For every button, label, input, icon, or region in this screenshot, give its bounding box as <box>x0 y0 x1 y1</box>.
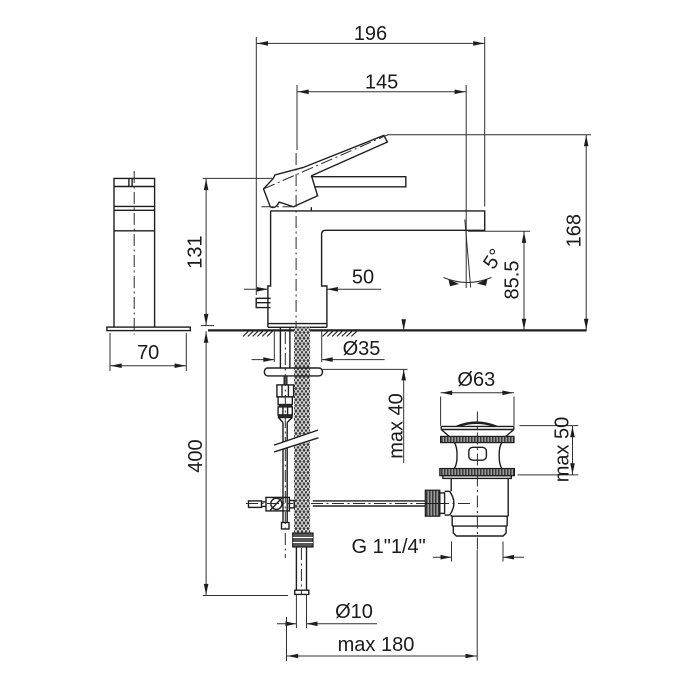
dimension max 40 <box>386 319 408 463</box>
svg-text:max 40: max 40 <box>386 393 408 459</box>
drain knurled ring 1 <box>441 436 514 442</box>
dimension 168 <box>387 135 591 331</box>
svg-text:max 50: max 50 <box>552 417 574 483</box>
pivot horizontal centerline <box>262 206 295 208</box>
linkage rod centerline <box>246 503 293 505</box>
pop-up linkage rod <box>249 497 426 511</box>
lever (raised position) <box>273 135 387 178</box>
side outlet box <box>256 298 270 307</box>
dimension G 1 1/4 <box>352 536 525 562</box>
angle 5 degrees <box>444 220 509 288</box>
drain centerline <box>476 412 478 551</box>
body centerline <box>295 153 297 330</box>
hose tube centerline <box>300 548 302 595</box>
pull rod <box>283 423 287 523</box>
dimension 400 <box>185 331 288 595</box>
faucet body and spout <box>268 211 485 327</box>
svg-text:131: 131 <box>185 235 207 268</box>
svg-text:Ø10: Ø10 <box>335 601 373 623</box>
side view centerline <box>133 171 135 335</box>
pull rod tip <box>282 523 290 530</box>
drain side port <box>425 490 454 516</box>
dimension 131 <box>185 178 273 325</box>
side view column <box>107 178 190 330</box>
drain neck <box>454 443 502 469</box>
svg-text:70: 70 <box>137 342 159 364</box>
pull rod coupling nut <box>277 385 294 423</box>
dimension 196 <box>256 23 484 295</box>
dimension dia35 <box>252 338 385 362</box>
svg-text:145: 145 <box>365 72 398 94</box>
dimension dia63 <box>441 369 514 426</box>
mounting flange <box>264 368 322 376</box>
svg-text:168: 168 <box>564 214 586 247</box>
pull rod upper stem <box>284 376 287 385</box>
svg-text:G 1"1/4": G 1"1/4" <box>352 536 426 558</box>
dimension dia10 <box>277 594 377 628</box>
dimension 145 <box>297 72 466 289</box>
dimension 85.5 <box>468 231 530 330</box>
drain rim <box>441 426 514 436</box>
pull rod centerline <box>284 332 286 442</box>
dimension max 180 <box>287 550 478 661</box>
lever (rest position) <box>311 177 406 187</box>
lever axis centerline <box>264 135 389 189</box>
drain cap dome <box>456 422 497 426</box>
hose end collar <box>293 533 313 547</box>
drain step ring <box>443 476 511 479</box>
drain knurled ring 2 <box>440 469 515 476</box>
dimension max 50 <box>518 417 579 483</box>
svg-text:196: 196 <box>354 23 387 45</box>
hose end tube <box>295 547 309 594</box>
svg-text:85.5: 85.5 <box>502 261 524 300</box>
counter hatching <box>243 331 357 336</box>
lever dome base <box>264 176 318 208</box>
dimension 70 <box>110 333 186 371</box>
svg-text:400: 400 <box>185 439 207 472</box>
svg-text:50: 50 <box>352 267 374 289</box>
drain overflow window <box>469 447 487 460</box>
hose break band <box>273 429 320 453</box>
hole edges / dia35 extension lines <box>273 331 275 362</box>
counter line <box>208 329 587 331</box>
drain tailpiece <box>452 516 507 536</box>
mounting shank <box>280 327 290 368</box>
svg-text:Ø63: Ø63 <box>457 369 495 391</box>
braided hose <box>294 328 310 534</box>
drain lower body <box>451 478 508 516</box>
svg-text:Ø35: Ø35 <box>343 338 381 360</box>
dimension 50 <box>244 267 381 292</box>
svg-text:max 180: max 180 <box>338 634 415 656</box>
